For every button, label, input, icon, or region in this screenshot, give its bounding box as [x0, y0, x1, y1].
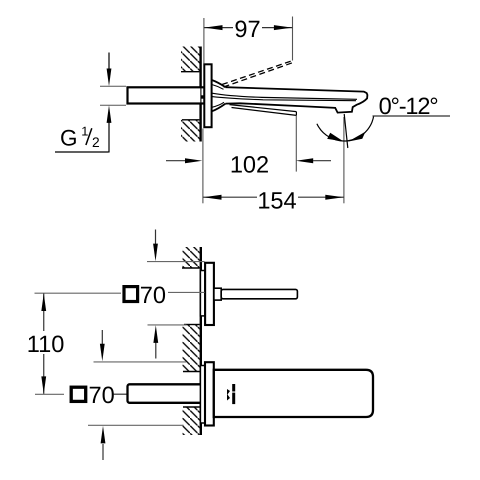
wall hatching middle block (plan view): [182, 325, 199, 372]
concealed valve body (plan): [128, 384, 206, 403]
upper escutcheon flange (plan): [200, 271, 205, 316]
svg-text:97: 97: [234, 17, 260, 43]
pipe thread ticks at wall: [200, 87, 202, 104]
closed lever wedge bottom line: [232, 108, 297, 116]
label leader upper 70: [168, 291, 205, 293]
svg-text:110: 110: [27, 332, 65, 358]
svg-text:70: 70: [89, 383, 115, 409]
dimension 110: [27, 293, 121, 394]
supply pipe extension line top: [100, 85, 126, 87]
svg-text:0°-12°: 0°-12°: [379, 94, 439, 120]
lever handle (plan view): [214, 370, 373, 417]
spout top edge: [226, 87, 365, 91]
wall section boundary (plan) y407: [183, 406, 200, 408]
valve thread ticks at wall (plan): [201, 386, 203, 402]
wall section boundary (plan) y324.5: [184, 324, 200, 326]
dimension square 70 lower arrows: [88, 330, 186, 460]
supply pipe extension line bottom: [100, 104, 126, 106]
svg-text:1: 1: [81, 124, 88, 139]
raised lever dashed line lower: [224, 63, 293, 87]
dimension 154: [203, 117, 344, 214]
wall section boundary lower (side view): [182, 119, 199, 121]
svg-text:102: 102: [230, 152, 269, 178]
wall hatching bottom block (plan view): [182, 407, 199, 435]
wall line (side view): [199, 47, 201, 142]
supply pipe: [128, 87, 205, 103]
svg-text:G: G: [60, 126, 78, 151]
dimension 102: [166, 116, 331, 179]
spout front top edge line: [212, 93, 357, 99]
lower escutcheon plate (plan): [205, 362, 214, 425]
GROHE logo mark on handle: [227, 389, 230, 401]
wall line (plan view): [200, 247, 202, 435]
wall hatching lower block (side view): [181, 120, 200, 142]
dimension square 70 upper arrows: [147, 230, 205, 359]
wall section boundary (plan) y268: [182, 267, 200, 269]
label square symbol upper 70: [124, 287, 138, 302]
faucet horn outer bottom curve: [212, 104, 226, 112]
spout front bottom edge line: [212, 97, 356, 101]
lower escutcheon flange (plan): [200, 366, 205, 424]
aerator swivel axis tilted 12 degrees: [344, 114, 348, 148]
label square symbol lower 70: [71, 387, 86, 401]
dimension G 1/2: [55, 53, 111, 153]
escutcheon (side view): [204, 64, 211, 127]
label leader lower 70: [114, 393, 128, 395]
wall section boundary (plan) y371.5: [183, 371, 200, 373]
closed lever wedge top line: [230, 105, 297, 112]
wall section boundary upper (side view): [181, 71, 199, 73]
faucet horn outer top curve: [212, 80, 226, 87]
angle arc right arrowhead: [348, 132, 365, 142]
spout tip and underside with aerator: [226, 92, 368, 113]
wall hatching upper block (side view): [181, 47, 200, 72]
angle arc 0-12 degrees: [317, 116, 374, 141]
spout blade mounting step (plan): [214, 288, 221, 300]
svg-text:154: 154: [257, 188, 296, 214]
angle arc left arrowhead: [327, 133, 343, 142]
closed lever wedge tip face: [295, 112, 297, 116]
dimension 97: [204, 17, 293, 64]
faucet horn inner bottom curve: [212, 102, 224, 107]
upper escutcheon plate (plan): [205, 263, 214, 325]
faucet horn inner top curve: [212, 85, 224, 90]
svg-text:70: 70: [140, 283, 166, 309]
wall hatching top block (plan view): [182, 247, 199, 268]
raised lever dashed line upper: [222, 61, 292, 85]
label leader 0-12 degrees: [373, 115, 451, 117]
spout blade (plan view): [221, 289, 297, 298]
svg-text:2: 2: [92, 135, 100, 150]
